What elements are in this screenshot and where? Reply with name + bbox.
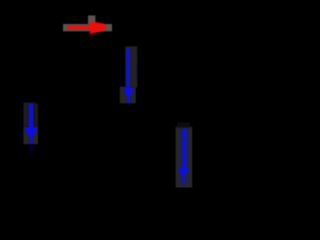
- red arrow head: [90, 21, 107, 34]
- gray vertical track of bottom-right blue arrow: [176, 127, 193, 188]
- red arrow shaft: [67, 26, 92, 30]
- gray vertical track of top-right blue arrow: [125, 46, 137, 87]
- top-right blue arrow head: [124, 88, 133, 104]
- gray horizontal track under red arrow: [63, 24, 112, 31]
- bottom-left blue arrow shaft: [29, 104, 33, 129]
- faint haze above bottom-right track: [177, 123, 190, 128]
- bottom-right blue arrow head: [178, 168, 189, 184]
- top-right blue arrow shaft: [126, 49, 129, 90]
- gray pad at top-right blue arrow head: [120, 87, 136, 104]
- bottom-left blue arrow head: [25, 127, 38, 143]
- gray pad at bottom-left blue arrow head: [23, 127, 37, 145]
- gray vertical track of bottom-left blue arrow: [23, 103, 35, 127]
- dark side column right of bottom-left track: [35, 104, 38, 144]
- faint red smudge below red arrow head: [88, 32, 94, 36]
- bottom-right blue arrow shaft: [182, 129, 186, 170]
- faint blue smudge below bottom-left arrow tip: [29, 145, 35, 153]
- gray vertical stub above red arrow junction: [88, 16, 95, 25]
